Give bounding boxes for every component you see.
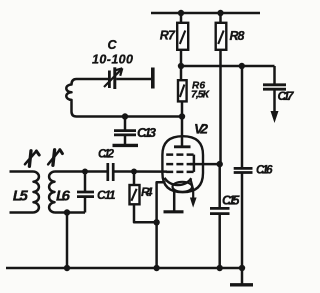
svg-text:7,5К: 7,5К (191, 89, 211, 101)
svg-text:C13: C13 (137, 125, 157, 140)
svg-text:C17: C17 (278, 89, 295, 103)
svg-text:R8: R8 (230, 29, 245, 43)
svg-text:C: C (108, 38, 118, 52)
svg-text:C16: C16 (256, 165, 273, 177)
svg-text:R4: R4 (141, 185, 153, 199)
svg-text:L6: L6 (56, 188, 71, 205)
svg-text:C15: C15 (222, 194, 241, 208)
svg-text:R7: R7 (160, 28, 176, 42)
svg-text:V2: V2 (194, 121, 208, 137)
svg-text:C12: C12 (98, 149, 115, 161)
svg-text:C11: C11 (97, 188, 116, 202)
svg-text:10-100: 10-100 (92, 53, 133, 67)
svg-text:L5: L5 (13, 188, 29, 205)
